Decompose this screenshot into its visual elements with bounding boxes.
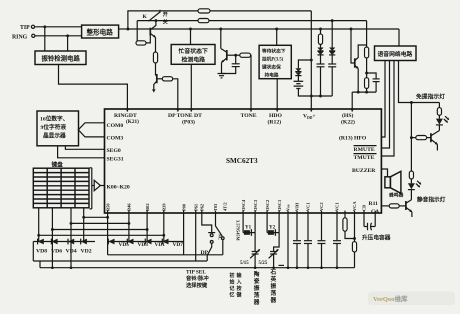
wire line2 right drop xyxy=(366,21,368,47)
svg-text:VDI: VDI xyxy=(295,203,300,211)
wire ground rail xyxy=(40,266,355,269)
svg-text:键状态保: 键状态保 xyxy=(261,64,281,71)
wire wait-state box to HDO pin xyxy=(276,79,278,109)
terminal TIP xyxy=(20,25,35,31)
wire bus line3 xyxy=(128,28,399,31)
diode pair D-C xyxy=(329,48,335,64)
wire Q1 emitter down xyxy=(155,38,157,53)
pin (HS) (K22) xyxy=(341,112,355,125)
wire line3 to busy-tone box xyxy=(190,29,192,45)
svg-text:石英振荡器: 石英振荡器 xyxy=(270,269,277,304)
diode pair D-A xyxy=(295,68,301,81)
transistor Q4 xyxy=(351,29,367,92)
transistor Q-handsfree xyxy=(431,125,440,151)
svg-text:陶瓷振荡器: 陶瓷振荡器 xyxy=(253,270,260,306)
ground below Q2 xyxy=(218,74,226,78)
pin TMUTE xyxy=(354,154,377,161)
svg-text:R50: R50 xyxy=(105,203,110,211)
wire diode row1 rail xyxy=(33,241,95,243)
wire key-row bus A xyxy=(82,216,109,219)
svg-text:COM3: COM3 xyxy=(107,135,124,141)
svg-text:Y2: Y2 xyxy=(269,226,276,231)
diode VD7 xyxy=(162,239,183,248)
resistor R-Q4a xyxy=(365,47,369,78)
svg-text:BUZZER: BUZZER xyxy=(352,168,376,174)
wire ring-detect to RINGDT pin xyxy=(59,65,128,110)
svg-text:VC1: VC1 xyxy=(306,202,311,211)
wire key-row bus D xyxy=(37,234,165,237)
speaker buzzer 蜂鸣器 xyxy=(381,169,403,199)
resistor base Q-handsfree xyxy=(411,136,431,140)
svg-text:CB: CB xyxy=(362,205,367,211)
crystal Y2 xyxy=(267,213,279,236)
svg-text:语音网络电路: 语音网络电路 xyxy=(378,50,413,58)
block LCD display 16位数字9位字符液晶显示器 xyxy=(37,111,79,146)
watermark xyxy=(368,292,455,306)
svg-text:(K21): (K21) xyxy=(126,118,139,125)
svg-text:音铃/脉冲: 音铃/脉冲 xyxy=(186,274,209,282)
capacitor C2 xyxy=(222,55,240,73)
resistor R-HF xyxy=(437,103,441,119)
svg-text:Y1: Y1 xyxy=(245,226,252,231)
svg-text:关: 关 xyxy=(163,19,168,26)
svg-text:VD1: VD1 xyxy=(155,242,166,248)
wire emitter rail to HS pin xyxy=(352,91,376,109)
wire to TONE pin xyxy=(250,55,252,109)
wire speech box to HFO pin xyxy=(381,61,385,138)
wire Q2 base xyxy=(227,54,240,57)
svg-text:静音指示灯: 静音指示灯 xyxy=(417,196,446,204)
svg-text:P62: P62 xyxy=(200,204,205,211)
capacitor C-VC1 xyxy=(304,213,312,268)
svg-text:16位数字、: 16位数字、 xyxy=(40,115,68,123)
wire chip row pins R50-P00 drops xyxy=(108,213,184,242)
resistor base of Q1 xyxy=(136,36,150,46)
capacitor C-VC3 xyxy=(333,213,341,268)
svg-text:SMC62T3: SMC62T3 xyxy=(226,157,258,165)
trimmer capacitor CT1 xyxy=(240,233,260,268)
svg-text:(HS): (HS) xyxy=(342,112,353,119)
diode VD2 xyxy=(81,239,92,255)
node chip top pin ticks xyxy=(126,108,353,112)
svg-text:DP: DP xyxy=(201,250,209,256)
node K00-K20 wedge arrow xyxy=(94,180,104,190)
svg-text:COM0: COM0 xyxy=(107,123,124,129)
battery B1 xyxy=(294,81,304,88)
resistor on line1 xyxy=(198,9,210,13)
svg-text:选择按键: 选择按键 xyxy=(186,281,208,289)
svg-text:TIP: TIP xyxy=(20,25,30,31)
wire line1 drop to VDD pin xyxy=(310,11,312,109)
svg-text:振铃检测电路: 振铃检测电路 xyxy=(42,54,81,63)
svg-text:(R13) HFO: (R13) HFO xyxy=(339,135,367,142)
svg-text:OSC2: OSC2 xyxy=(265,200,270,211)
wire line2 left drop to base resistor xyxy=(136,21,138,43)
LED mute xyxy=(408,181,421,190)
svg-text:VD3: VD3 xyxy=(138,242,149,248)
transistor Q2 xyxy=(221,29,227,74)
resistor base of Q3 xyxy=(162,77,172,81)
wire RING line xyxy=(35,34,82,37)
switch K 开/关 xyxy=(143,10,168,26)
pin RINGDT (K21) xyxy=(114,113,139,125)
block shaping circuit 整形电路 xyxy=(82,25,119,38)
svg-text:3.579545M: 3.579545M xyxy=(236,220,241,241)
wire SEG31 xyxy=(58,146,105,158)
wire Vss drop xyxy=(279,213,289,268)
diode VD8 xyxy=(36,239,47,255)
svg-text:晶显示器: 晶显示器 xyxy=(43,132,66,140)
wire diode row2 to select rail xyxy=(108,242,223,255)
svg-text:TMUTE: TMUTE xyxy=(354,155,375,161)
wire key-row bus C xyxy=(51,228,149,231)
svg-text:键盘: 键盘 xyxy=(51,160,64,168)
svg-text:输入按键: 输入按键 xyxy=(236,272,243,299)
wire TIP tap down xyxy=(44,27,46,51)
resistor R11 link xyxy=(381,204,406,208)
wire SEG0 xyxy=(65,146,104,150)
resistor column B xyxy=(318,29,322,48)
wire TIP line xyxy=(35,25,82,28)
svg-text:挂机P(3.5): 挂机P(3.5) xyxy=(262,56,284,63)
svg-text:TIP SEL: TIP SEL xyxy=(186,269,206,275)
transistor Q1 xyxy=(150,19,157,38)
wire line3 to wait-state box xyxy=(276,29,278,45)
wire battery column link xyxy=(298,59,312,69)
keyboard matrix grid xyxy=(33,168,89,208)
wire keyboard column drops xyxy=(39,208,84,242)
block wait-state hold 等待状态下保持电路 xyxy=(259,45,291,78)
svg-text:初始记忆: 初始记忆 xyxy=(230,272,235,299)
svg-text:RMUTE: RMUTE xyxy=(354,147,375,153)
svg-text:RING: RING xyxy=(12,35,28,41)
svg-text:9位字符液: 9位字符液 xyxy=(41,123,67,131)
svg-text:5/25: 5/25 xyxy=(259,261,268,266)
capacitor C-VDI xyxy=(293,213,301,268)
diode VD5 xyxy=(108,239,129,248)
op-amp U1 SMC62T3 chip body xyxy=(105,109,382,213)
svg-text:OSC4: OSC4 xyxy=(241,199,246,211)
diode pair D-B xyxy=(317,48,323,64)
pin HDO (R12) xyxy=(268,113,283,125)
wire COM bus wedge xyxy=(78,123,104,137)
wire line3 to speech box xyxy=(398,29,400,46)
svg-text:(R12): (R12) xyxy=(268,118,282,125)
label T/P select button xyxy=(186,269,209,289)
resistor Q2 base xyxy=(240,53,251,57)
svg-text:VD2: VD2 xyxy=(81,248,92,254)
svg-text:蜂鸣器: 蜂鸣器 xyxy=(389,192,404,199)
svg-text:免提指示灯: 免提指示灯 xyxy=(416,93,445,101)
svg-text:开: 开 xyxy=(163,11,168,18)
wire speech box to TMUTE pin xyxy=(381,61,394,157)
svg-text:升压电容器: 升压电容器 xyxy=(362,234,391,242)
svg-text:P61: P61 xyxy=(193,204,198,211)
wire Q3 base to DP pin xyxy=(173,79,178,109)
capacitor C-Q4 xyxy=(367,73,380,92)
wire bus line2 xyxy=(137,19,366,22)
block speech network 语音网络电路 xyxy=(375,46,417,61)
crystal Y1 xyxy=(243,213,255,236)
svg-text:TONE: TONE xyxy=(241,113,257,119)
node chip bottom pin ticks xyxy=(108,211,376,213)
wire battery to VDD rail xyxy=(298,89,332,98)
svg-text:4T/2: 4T/2 xyxy=(222,202,227,211)
svg-text:P00: P00 xyxy=(181,203,186,211)
svg-text:OSC3: OSC3 xyxy=(253,199,258,211)
terminal RING xyxy=(12,34,35,40)
keyboard bracket xyxy=(90,168,95,209)
wire drops to bottom rails xyxy=(33,242,71,268)
capacitor column B xyxy=(317,64,325,96)
pin P61 drop xyxy=(195,213,197,261)
wire bus line1 top xyxy=(128,11,311,29)
node HFO tap xyxy=(410,101,413,171)
capacitor column C xyxy=(328,64,336,96)
pin RMUTE xyxy=(354,146,377,153)
svg-text:VeeQoo维库: VeeQoo维库 xyxy=(373,294,408,303)
svg-text:持电路: 持电路 xyxy=(265,72,279,79)
wire key-row bus B xyxy=(70,222,131,225)
svg-text:K: K xyxy=(143,14,148,20)
diode VD4 xyxy=(66,239,77,255)
wire column C from line2 xyxy=(331,21,333,48)
capacitor CB-CA boost xyxy=(362,213,391,242)
resistor R-VCA xyxy=(352,213,356,268)
svg-text:VC2: VC2 xyxy=(319,202,324,211)
svg-text:VCA: VCA xyxy=(352,201,357,211)
transistor Q3 xyxy=(152,73,162,93)
svg-text:等待状态下: 等待状态下 xyxy=(262,48,286,55)
wire to Q3 xyxy=(155,63,157,73)
LED hands-free xyxy=(436,116,449,125)
wire speech box to RMUTE pin xyxy=(381,61,389,149)
wire shaping output node xyxy=(119,28,130,31)
wire select rail xyxy=(33,260,207,262)
trimmer capacitor CT2 xyxy=(259,233,280,268)
svg-text:R11: R11 xyxy=(369,201,379,207)
label initial input (vertical) xyxy=(230,272,243,299)
svg-text:HDO: HDO xyxy=(269,113,283,119)
block busy-tone detect 忙音状态下检测电路 xyxy=(171,45,215,65)
resistor R-345 xyxy=(343,213,356,240)
svg-text:VD7: VD7 xyxy=(173,242,184,248)
diode VD3 xyxy=(127,239,148,248)
resistor below Q1 xyxy=(153,52,157,63)
svg-text:(P03): (P03) xyxy=(182,118,195,125)
svg-text:5/15: 5/15 xyxy=(240,261,249,266)
wire busy-tone box to TONEDT pin xyxy=(190,64,192,109)
svg-text:K00~K20: K00~K20 xyxy=(107,184,130,190)
svg-text:检测电路: 检测电路 xyxy=(182,56,206,64)
switch T03 xyxy=(216,213,225,255)
resistor on line2 xyxy=(198,19,209,23)
block ring-detect circuit 振铃检测电路 xyxy=(35,51,86,65)
capacitor C-VC2 xyxy=(318,213,326,268)
svg-text:R46: R46 xyxy=(127,203,132,211)
pin DP TONE DT (P03) xyxy=(168,113,202,125)
svg-text:R02: R02 xyxy=(145,203,150,211)
svg-text:Vss: Vss xyxy=(286,204,291,211)
resistor R-Q4b xyxy=(365,78,369,92)
svg-text:T03: T03 xyxy=(213,203,218,211)
svg-text:忙音状态下: 忙音状态下 xyxy=(179,47,209,55)
diode VD6 xyxy=(51,239,62,255)
svg-text:R39: R39 xyxy=(162,203,167,211)
svg-text:SEG31: SEG31 xyxy=(107,156,124,162)
wire speech box to indicator rail xyxy=(399,61,440,103)
wire RING tap down xyxy=(67,36,69,51)
transistor Q-mute xyxy=(406,190,412,217)
svg-text:OSC1: OSC1 xyxy=(277,200,282,211)
svg-text:整形电路: 整形电路 xyxy=(87,27,114,36)
svg-text:DP TONE DT: DP TONE DT xyxy=(168,113,202,119)
diode VD1 xyxy=(145,239,165,248)
svg-text:SEG0: SEG0 xyxy=(107,148,121,154)
switch DP xyxy=(201,213,216,261)
svg-text:(K22): (K22) xyxy=(341,118,355,125)
resistor R-mute xyxy=(409,171,413,183)
wire diode row2 rail xyxy=(108,241,184,243)
svg-text:VD8: VD8 xyxy=(36,248,47,254)
svg-text:VC1: VC1 xyxy=(335,202,340,211)
